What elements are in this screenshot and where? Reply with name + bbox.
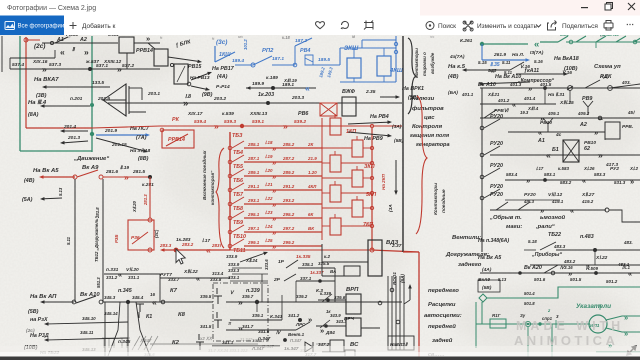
wire РУ20 bus: [481, 88, 483, 252]
junction: [543, 86, 547, 90]
red node: [370, 248, 374, 252]
wire diagonal: [108, 302, 120, 356]
arrow На Ш.4: [45, 105, 91, 107]
junction: [324, 324, 328, 328]
window maximize button: [607, 3, 613, 9]
green stub: [599, 304, 601, 310]
wire 401.4: [480, 103, 556, 105]
green wire chain: [566, 41, 640, 43]
wire: [610, 84, 640, 88]
red relay Р36: [128, 220, 154, 250]
switch К8: [214, 312, 222, 328]
green wire top: [482, 43, 528, 45]
window minimize button: [581, 7, 588, 8]
red node: [370, 224, 373, 227]
Добавить к: [70, 22, 77, 29]
red node: [73, 175, 77, 179]
red stub: [334, 151, 336, 155]
red coil bus left: [321, 118, 323, 240]
junction 1к.203: [266, 101, 270, 105]
red vertical right: [418, 252, 420, 357]
switch РУ20: [484, 189, 500, 198]
relay РВ15 box: [174, 64, 188, 84]
wire vertical: [104, 302, 106, 356]
fork РВ9: [583, 101, 593, 115]
blue wire: [313, 64, 340, 66]
junction п.345: [126, 300, 130, 304]
red wire coil right: [363, 177, 372, 179]
red relay coil 4КП: [352, 170, 363, 187]
wire vertical: [127, 302, 129, 356]
wire diag: [296, 322, 310, 330]
red switch ТБ11: [232, 239, 244, 246]
junction Вк А10: [72, 300, 76, 304]
component ВДЗ box: [368, 240, 382, 276]
wire: [232, 273, 268, 275]
red node: [99, 175, 103, 179]
wire vertical bundle 4: [399, 276, 401, 350]
wire stub down: [544, 88, 546, 104]
switch: [496, 202, 508, 210]
red switch Вк А9: [77, 170, 98, 177]
switch ТБ22: [540, 242, 556, 250]
red stub: [334, 181, 336, 185]
toolbar: [0, 16, 640, 36]
junction к.189: [271, 86, 275, 90]
junction open: [608, 86, 613, 91]
red wire РК: [92, 126, 160, 128]
blue button Все фотографии: [0, 16, 64, 36]
wire bus 203: [108, 102, 402, 104]
green junction: [569, 40, 573, 44]
wire diagonal 2: [136, 302, 150, 356]
green junction: [538, 322, 541, 325]
switch К2: [196, 334, 204, 350]
red node ТБ11: [228, 244, 232, 248]
red wire ТБ4: [244, 147, 322, 149]
junction open: [551, 271, 555, 275]
green lamp ИЛ1: [589, 315, 607, 333]
boxed label (6В): [478, 280, 500, 292]
arrow На РВ4: [348, 122, 388, 124]
red stub: [334, 214, 336, 218]
arrow компрессор: [516, 73, 564, 75]
red ladder bus: [229, 132, 231, 250]
red coil bus right: [371, 128, 373, 250]
red wire coil left: [322, 125, 330, 127]
svg-text:Изменить и создать: Изменить и создать: [477, 23, 538, 30]
blue node РП2: [251, 63, 255, 67]
red switch ТБ10: [232, 225, 244, 232]
junction: [326, 298, 330, 302]
switch К1: [136, 304, 144, 318]
red relay coil 5КП: [330, 185, 341, 202]
green junction: [633, 40, 637, 44]
blue wire bottom: [340, 81, 396, 83]
wire: [321, 244, 323, 276]
red node ТБ9: [228, 216, 232, 220]
junction ж.537: [88, 67, 92, 71]
wire L to right: [609, 210, 640, 222]
wire: [148, 43, 155, 49]
red relay coil 7КП: [330, 218, 341, 235]
arrow На ВкА11: [45, 301, 75, 303]
blue arrow 261.9: [482, 59, 526, 61]
wire 333: [160, 277, 230, 279]
arrow 201.15 На XII.18: [96, 138, 144, 151]
red node: [370, 176, 373, 179]
connector bar: [125, 84, 127, 116]
dash-dot box: [213, 283, 268, 341]
junction РУ20: [480, 153, 484, 157]
wire: [404, 300, 410, 304]
wire red top stub: [26, 39, 40, 41]
wire 130row: [508, 131, 605, 133]
red wire 283 right: [230, 249, 372, 251]
wire vertical bundle 2: [391, 276, 393, 350]
crop icon: [364, 21, 373, 30]
switch: [320, 320, 330, 328]
wire vertical link: [261, 274, 263, 302]
junction: [50, 41, 53, 44]
wire 155row: [490, 154, 640, 156]
junction 583: [543, 178, 547, 182]
red stub: [356, 166, 358, 170]
wire: [322, 261, 368, 263]
green diamond node: [479, 294, 487, 302]
red node ТБ7: [228, 188, 232, 192]
wire: [54, 50, 56, 58]
junction 419: [605, 208, 609, 212]
svg-text:⋯: ⋯: [626, 20, 634, 29]
green wire out top: [606, 316, 640, 320]
blue wire vertical: [294, 46, 296, 65]
red crossed box: [320, 103, 337, 116]
blue wire horiz: [340, 47, 396, 49]
junction: [170, 63, 173, 66]
wire: [322, 275, 344, 277]
wire 501: [480, 272, 640, 274]
arrow На ВКА7: [47, 86, 111, 88]
junction РУ20: [480, 126, 484, 130]
relay РРВ14 (black): [119, 37, 134, 53]
window close button: [628, 3, 635, 10]
wire vertical bundle 5: [403, 276, 405, 350]
wire: [230, 280, 268, 282]
stub: [281, 295, 283, 302]
wire 341: [226, 329, 296, 331]
fork РВ10: [543, 118, 553, 132]
arrow На РЗД: [49, 338, 129, 340]
photo icon: [5, 22, 15, 30]
green wire down: [481, 302, 483, 324]
red wire ТБ7: [244, 189, 322, 191]
green lamp row wire: [476, 323, 590, 325]
switch 1Р: [286, 260, 298, 268]
red node: [370, 206, 373, 209]
wire down: [594, 250, 596, 265]
junction РУ20: [480, 175, 484, 179]
wire stub: [524, 249, 536, 251]
svg-text:Добавить к: Добавить к: [82, 22, 116, 30]
red wire coil left: [322, 225, 330, 227]
red relay РРВ14: [162, 130, 194, 148]
blue wire vertical: [339, 48, 341, 65]
red wire ТБ10: [244, 231, 322, 233]
red wire: [103, 176, 150, 178]
wire 339.1: [230, 319, 282, 321]
svg-text:Все фотографии: Все фотографии: [18, 24, 65, 30]
green wire out bottom: [606, 328, 640, 332]
junction: [518, 271, 522, 275]
red wire crossing divider: [403, 251, 419, 253]
blue wire right vertical: [395, 36, 397, 82]
node red top: [24, 38, 28, 42]
red junction: [240, 124, 244, 128]
red node: [370, 161, 373, 164]
arrow 201.4: [65, 130, 89, 132]
diode: [305, 342, 313, 352]
switch РУ20: [484, 168, 500, 177]
red node: [370, 124, 373, 127]
red node ТБ6: [228, 174, 232, 178]
wire: [361, 327, 380, 329]
arrow На РВ9: [348, 132, 388, 136]
node junction Вк А9: [90, 132, 94, 136]
blue stub: [353, 78, 355, 82]
arrow down На 2КП: [395, 160, 397, 191]
red wire coil right: [363, 147, 372, 149]
switch РУ20: [484, 119, 500, 128]
red node ТБ10: [228, 230, 232, 234]
wire vertical bundle 1: [387, 276, 389, 350]
blue stub top: [383, 48, 385, 56]
edge line: [1, 36, 3, 72]
red switch ТБ4: [232, 141, 244, 148]
junction п.339: [255, 300, 259, 304]
junction: [99, 300, 103, 304]
wire 483.2: [530, 264, 640, 266]
wire 345: [103, 301, 160, 303]
blue wire: [361, 40, 363, 48]
arrow up: [409, 289, 411, 301]
wire 483: [556, 249, 640, 251]
wire 347: [212, 345, 280, 347]
component ВРП box: [346, 294, 361, 314]
red node: [160, 128, 164, 132]
wire vertical bundle 3: [395, 276, 397, 350]
wire down from РРВ14: [126, 53, 128, 69]
green inner dot: [527, 323, 529, 325]
red wire coil left: [322, 147, 352, 149]
junction: [187, 82, 191, 86]
wire vertical link right: [334, 268, 336, 302]
red relay coil 1КП: [330, 118, 341, 135]
red relay coil 6КП: [352, 200, 363, 217]
wire faded: [150, 343, 258, 345]
wire teal right vertical: [91, 36, 93, 152]
svg-text:Фотографии — Схема 2.jpg: Фотографии — Схема 2.jpg: [7, 5, 96, 12]
junction п.483: [593, 248, 597, 252]
junction open: [378, 301, 382, 305]
red node: [148, 248, 152, 252]
wire top row: [42, 42, 118, 44]
arrow (5А): [45, 197, 63, 200]
connector bar inner: [128, 86, 130, 114]
wire stub down 2: [569, 90, 571, 104]
wire 583: [505, 179, 640, 181]
switch: [544, 265, 558, 273]
arrow На ВРК1: [380, 96, 396, 98]
red brace right: [416, 96, 427, 234]
green node К.261: [480, 42, 484, 46]
red wire coil left: [322, 177, 352, 179]
blue node: [293, 63, 297, 67]
svg-text:Поделиться: Поделиться: [562, 23, 598, 30]
junction п.347: [283, 338, 287, 342]
wire stub top: [10, 57, 55, 59]
wire 409: [480, 117, 640, 119]
blue node: [394, 42, 397, 45]
wire: [318, 299, 346, 301]
blue coil РВ4 small: [305, 55, 313, 65]
green vertical lamp: [551, 324, 553, 357]
red wire ТБ8: [244, 203, 322, 205]
red switch ТБ9: [232, 211, 244, 218]
blue switch 187.2: [295, 38, 312, 46]
red wire coil right: [341, 192, 372, 194]
switch: [322, 294, 332, 302]
wire: [129, 87, 142, 89]
red stub: [334, 114, 336, 118]
red wire coil right: [363, 207, 372, 209]
wire: [134, 42, 160, 44]
blue wire: [272, 64, 295, 66]
green resistor R15: [490, 319, 506, 328]
green wire bottom: [596, 351, 640, 353]
printer icon: [604, 23, 613, 28]
brace контакторы: [408, 38, 416, 114]
blue relay ЗКШ: [347, 58, 361, 78]
wire 331: [104, 273, 160, 275]
red wire coil right: [341, 162, 372, 164]
green circle node: [525, 321, 530, 326]
wire vertical link: [159, 274, 161, 302]
green wire step: [487, 287, 640, 298]
hatch: [177, 66, 185, 82]
wire: [361, 301, 388, 303]
red wire down: [149, 177, 151, 218]
green switch chain: [558, 36, 640, 42]
mouse cursor: [176, 249, 185, 264]
switch 2Р: [284, 274, 296, 281]
wire: [141, 88, 143, 100]
red switch Р36: [132, 232, 148, 244]
blue stub: [383, 76, 385, 82]
switch contact A1: [55, 37, 68, 43]
blue stub top: [353, 48, 355, 58]
switch: [510, 62, 524, 70]
red stub: [356, 136, 358, 140]
faded bottom strip content: [102, 336, 330, 353]
svg-text:Поиск: Поиск: [438, 23, 456, 30]
red wire coil left: [322, 207, 352, 209]
arrow На РВ17: [191, 74, 208, 80]
green wire: [540, 41, 558, 43]
wire 337: [296, 280, 335, 282]
wire vertical ТБ12: [102, 179, 104, 302]
wire: [232, 267, 262, 269]
switch: [518, 202, 530, 210]
blue relay 4КШ: [377, 56, 391, 76]
red node: [370, 191, 373, 194]
diagonal resize arrow: [627, 346, 636, 355]
title bar: [0, 0, 640, 16]
search icon: [426, 22, 434, 30]
connector fan-out: [103, 84, 126, 116]
red wire coil left: [322, 162, 330, 164]
wire stub: [9, 58, 11, 69]
red wire arrow Вк А5: [44, 176, 76, 178]
red node ТБ8: [228, 202, 232, 206]
red node ТБ4: [228, 146, 232, 150]
switch: [585, 80, 600, 88]
arrow up 333: [240, 254, 264, 263]
red switch: [166, 134, 188, 146]
arrow На к.5: [467, 69, 511, 71]
red wire coil left: [322, 192, 330, 194]
switch К7: [214, 288, 222, 304]
wire stub: [256, 302, 258, 312]
diagonals: [132, 336, 158, 350]
junction РУ20: [480, 196, 484, 200]
bottom fade band: [0, 346, 640, 357]
slash: [567, 86, 573, 90]
heart icon: [316, 22, 325, 29]
red node ТБ5: [228, 160, 232, 164]
arrow На ВкА10 2: [483, 82, 531, 84]
wire teal bottom: [20, 150, 92, 152]
red relay coil ЗКП: [330, 155, 341, 172]
green stub: [555, 320, 557, 328]
arrow на РзХ: [49, 322, 129, 324]
comb symbols: [102, 338, 130, 348]
wire red vertical feeder: [25, 37, 27, 128]
wire teal left vertical: [19, 36, 21, 151]
junction К.341: [298, 318, 302, 322]
wire vertical link 2: [295, 281, 297, 302]
switch РУ20: [484, 146, 500, 155]
blue wire: [235, 64, 253, 66]
red wire coil right: [341, 125, 372, 127]
wire 339: [226, 301, 402, 303]
red wire ТБ6: [244, 175, 322, 177]
red wire 283 left arrow: [165, 249, 231, 251]
red wire to vertical: [372, 250, 419, 252]
junction open: [568, 86, 573, 91]
rotate icon: [341, 21, 348, 28]
red wire ТБ9: [244, 217, 322, 219]
arrow На РВ13: [191, 86, 206, 89]
wire 339 left: [160, 301, 213, 303]
relay БЛК box: [154, 49, 168, 66]
share icon: [551, 21, 557, 28]
blue wire down: [481, 44, 483, 60]
red wire ТБ11: [244, 245, 322, 247]
junction к.281: [148, 175, 152, 179]
green vertical 2: [527, 327, 529, 357]
green vertical: [475, 302, 477, 348]
